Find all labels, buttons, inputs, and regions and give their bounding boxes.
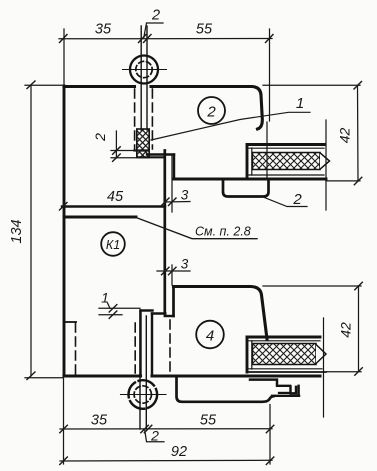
panel broken edge line bottom (323, 318, 325, 417)
svg-text:92: 92 (171, 444, 187, 460)
wire panel2 bottom inner line (249, 368, 322, 370)
wire bottom edge of upper box (joint line) (62, 205, 165, 207)
wire panel2 left edge thick (246, 337, 249, 372)
wire panel2 bottom edge (247, 371, 326, 373)
wire step vertical x152 (151, 314, 153, 376)
pin shaft lines bottom (139, 312, 141, 430)
break arrow bottom panel (316, 345, 326, 364)
tick 42t top (354, 82, 362, 90)
dim line y460.5 (60, 459, 272, 462)
hinge inner dashed circle bottom (134, 386, 151, 403)
pin shaft lines top (140, 26, 142, 130)
tick 45 left (60, 203, 68, 211)
wire bottom edge of leaf 4 (152, 374, 320, 377)
wire leaf4 ledge y315 (165, 315, 174, 317)
dim line y429 (60, 428, 272, 430)
hinge inner dashed circle top (136, 61, 152, 77)
extension line left corner up (63, 29, 65, 84)
dim line y314.5 (99, 314, 122, 316)
dimension 45 and 3 upper (60, 155, 191, 212)
tick bottom right (266, 425, 274, 433)
clip tab inner slot lines (279, 392, 290, 394)
insulation hatch band top (253, 153, 321, 170)
dim line y308 (99, 307, 140, 309)
svg-text:55: 55 (196, 22, 213, 38)
wire panel top edge thick (247, 143, 324, 146)
wire panel bottom inner line (249, 174, 324, 176)
dim line x358.5 (358, 286, 360, 372)
frame box upper (left block) (62, 86, 165, 376)
wire panel left inner line (251, 148, 253, 175)
dimension 3 lower (157, 265, 190, 285)
wire top edge of leaf 2 (151, 87, 262, 130)
tick top right (266, 35, 274, 43)
dim line y157.5 (111, 157, 141, 159)
tick 92 left (60, 457, 68, 465)
wire right edge of frame boxes (163, 151, 166, 314)
door leaf node 2 (top right) (135, 87, 326, 180)
dim line x31 (30, 85, 32, 376)
hinge outer circle top (130, 56, 158, 84)
dim line top y38.5 (59, 38, 272, 40)
riser for label 1 (108, 303, 111, 308)
wire leaf2 step x174 (173, 155, 175, 180)
tick 3u left (162, 198, 170, 206)
svg-text:3: 3 (181, 188, 189, 203)
wire frame rebate bottom at pin (140, 156, 165, 158)
tick 3l right (169, 267, 177, 275)
svg-text:2: 2 (151, 8, 160, 24)
extension x172 upper (171, 155, 173, 212)
svg-text:3: 3 (181, 257, 189, 272)
tick 3u right (169, 198, 177, 206)
svg-text:4: 4 (206, 328, 214, 345)
dimension left 134 (25, 81, 63, 380)
hinge centerline horizontal bottom (121, 394, 167, 396)
svg-text:1: 1 (101, 290, 109, 306)
bottom trim bar assembly (177, 377, 300, 402)
dimension bottom rows (60, 378, 274, 465)
wire step y310 (141, 309, 153, 311)
wire top edge of upper frame box (64, 85, 135, 88)
panel broken edge line top (325, 120, 327, 210)
wire hidden slot dash left top (134, 89, 136, 149)
svg-text:2: 2 (92, 133, 108, 142)
extension y181 right (326, 180, 360, 182)
glazing bracket top (223, 180, 269, 197)
hinge outer circle bottom (129, 380, 158, 409)
svg-text:К1: К1 (106, 238, 120, 252)
dimension 42 top right (263, 82, 362, 185)
wire panel top inner line (249, 147, 324, 149)
wall panel top (hatched) (247, 120, 330, 210)
wire panel2 top edge thick (247, 336, 320, 339)
wire bottom edge of K1 box (64, 374, 141, 377)
extension x172 lower (171, 265, 173, 285)
hinge pin top (123, 26, 167, 158)
extension y85 (25, 84, 63, 86)
svg-text:55: 55 (200, 413, 217, 429)
wire top edge of leaf 4 (174, 287, 268, 340)
tick bottom pin right (144, 425, 152, 433)
dim line x357.5 (357, 85, 360, 181)
wire leaf2 ledge y154 (147, 153, 174, 155)
svg-text:1: 1 (296, 95, 304, 112)
tick 134 bottom (27, 372, 35, 380)
node circle 4 (196, 321, 224, 349)
door leaf node 4 (bottom right) (152, 287, 320, 377)
wire left edge of frame boxes (63, 86, 66, 376)
extension line right x269.5 (269, 29, 271, 121)
node circle 2 (198, 97, 225, 124)
dim line y150.5 (111, 150, 139, 152)
leader and label 2 right (bracket) (262, 197, 307, 207)
tick bottom pin left (141, 425, 149, 433)
dimension 2 rotated at top pin (111, 131, 141, 161)
leader for label 2 bottom (145, 431, 164, 442)
leader K1 joint and note text (136, 218, 257, 239)
extension y85.3 right (263, 84, 360, 86)
tick top left (60, 35, 68, 43)
svg-text:См. п. 2.8: См. п. 2.8 (195, 225, 251, 239)
wire step vertical x140 (139, 311, 141, 377)
svg-text:2: 2 (150, 428, 159, 444)
extension x270 bottom (269, 405, 271, 465)
tick top at pin right (144, 35, 152, 43)
wire notch hidden edge (dashed) (75, 323, 77, 374)
tick top at pin left (139, 35, 147, 43)
frame box K1 (lower) (64, 217, 174, 376)
hinge centerline horizontal top (123, 69, 167, 71)
wire panel left edge thick (246, 145, 249, 179)
dimension top row (59, 23, 273, 121)
wire leaf4 left edge (172, 287, 175, 317)
wire panel2 top inner line (249, 340, 320, 342)
trim bar outline (177, 377, 274, 402)
tick bottom left (60, 425, 68, 433)
extension x63.5 bottom (63, 378, 65, 464)
tick 42b bottom (355, 368, 363, 376)
wire top edge of K1 box (64, 216, 136, 219)
tick 1b (109, 311, 117, 318)
svg-text:134: 134 (9, 219, 25, 243)
clip tab right and bottom (272, 386, 299, 396)
dim line 3 lower (157, 270, 190, 272)
svg-text:42: 42 (338, 322, 354, 338)
clip tab top step (250, 380, 290, 386)
tick 2b (113, 154, 121, 161)
wire notch top edge (64, 321, 76, 323)
svg-text:2: 2 (292, 191, 302, 208)
wire frame ledge left of pin (135, 149, 149, 151)
wire hidden slot dash left bottom (134, 323, 136, 373)
dimension 42 bottom right (263, 282, 362, 375)
extension y371.5 right (327, 371, 361, 373)
svg-text:35: 35 (95, 22, 112, 38)
wire panel2 left inner line (251, 341, 253, 369)
tick 1a (109, 305, 117, 312)
wire hidden slot dash right top (151, 89, 153, 149)
leader for label 2 top (144, 23, 163, 38)
tick 92 right (266, 457, 274, 465)
riser x116 (115, 131, 117, 158)
break arrow top panel (320, 153, 330, 169)
svg-text:35: 35 (91, 413, 108, 429)
tick 3l left (162, 267, 170, 275)
node circle K1 (101, 232, 125, 256)
tick 42t bottom (354, 177, 362, 185)
leader and label 1 top right (151, 112, 310, 140)
tick 134 top (27, 81, 35, 89)
tick 2a (113, 147, 121, 154)
wire leaf2 bottom edge (174, 178, 326, 181)
wall panel bottom (hatched) (247, 318, 326, 417)
wire leaf2 right edge thin extension to bracket (266, 122, 268, 179)
extension y377.5 (25, 377, 63, 379)
dimension 1 at bottom step (99, 303, 140, 318)
extension y286 right (263, 285, 361, 287)
dim line 3 upper (165, 201, 190, 204)
svg-text:45: 45 (107, 189, 124, 205)
hinge pin bottom (121, 312, 167, 430)
wire hidden slot dash right bottom (169, 320, 171, 372)
tick 42b top (355, 282, 363, 290)
wire step y313 (152, 312, 165, 314)
svg-text:42: 42 (337, 128, 353, 144)
svg-text:2: 2 (206, 104, 216, 121)
pin anchor hatched block (137, 129, 149, 158)
insulation hatch band bottom (253, 344, 317, 365)
